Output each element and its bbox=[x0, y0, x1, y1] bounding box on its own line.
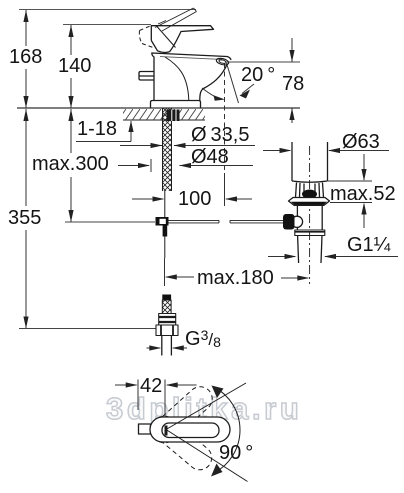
dimension text G1 1/4 bbox=[347, 234, 390, 257]
dimension max.180 bbox=[165, 258, 310, 286]
spout inner curve bbox=[165, 57, 189, 101]
ball knob bbox=[283, 214, 295, 230]
dimension 42 bbox=[115, 380, 197, 428]
dimension text G3/8 bbox=[185, 327, 221, 351]
dimension text O33,5 bbox=[191, 124, 250, 147]
faucet lever bbox=[151, 26, 213, 52]
counter bottom line bbox=[123, 119, 205, 121]
handle outer bbox=[150, 417, 230, 442]
counter top line bbox=[17, 107, 300, 109]
handle pivot tick bbox=[165, 426, 168, 436]
faucet dome bbox=[151, 41, 169, 53]
dimension text 20 deg bbox=[241, 64, 275, 87]
dimension 1-18 bracket bbox=[76, 121, 134, 142]
20 degree annotation bbox=[202, 63, 254, 172]
aerator bbox=[216, 57, 230, 66]
hose top cap bbox=[162, 295, 171, 301]
counter hatch bbox=[123, 109, 205, 120]
dimension 355 bbox=[23, 109, 28, 329]
rod stub below tee bbox=[163, 226, 168, 237]
ball rod socket bbox=[291, 216, 302, 227]
dimension O33,5 arrows bbox=[120, 143, 255, 148]
tailpipe lower bbox=[298, 236, 299, 264]
dimension 168 bbox=[23, 10, 28, 108]
drain tailpipe bbox=[296, 206, 298, 231]
shank end reference line bbox=[65, 221, 155, 223]
drain flange bbox=[289, 198, 330, 206]
dimension text 355 bbox=[7, 207, 42, 230]
dimension G3/8 arrows bbox=[147, 345, 188, 350]
handle inner bbox=[162, 423, 219, 438]
dimension max.300 bbox=[68, 109, 73, 222]
dimension O48 arrows bbox=[118, 159, 253, 172]
drain top cylinder bbox=[291, 142, 293, 181]
dimension text 90 deg bbox=[219, 442, 253, 465]
dimension texts bbox=[0, 0, 1, 1]
dimension O63 bbox=[263, 148, 389, 153]
90 degree wedge lines bbox=[166, 383, 248, 482]
handle stub bbox=[139, 424, 151, 434]
hose nut upper bbox=[159, 314, 176, 326]
dimension text max.180 bbox=[197, 267, 274, 290]
dimension text 42 bbox=[140, 375, 162, 398]
drain ribbed neck bbox=[296, 183, 324, 198]
dimension text 100 bbox=[178, 188, 211, 211]
faucet dome inner diagonal bbox=[157, 27, 176, 48]
dashed swing position upper bbox=[148, 382, 218, 475]
coupling ring bbox=[295, 230, 325, 236]
dimension max.52 bbox=[328, 154, 372, 228]
threaded shank bbox=[163, 108, 172, 191]
drain black seal ring bbox=[302, 190, 317, 199]
dimension text max.52 bbox=[330, 183, 396, 206]
dimension text 1-18 bbox=[77, 118, 117, 141]
dimension text max.300 bbox=[31, 153, 110, 176]
dimension text 140 bbox=[57, 55, 92, 78]
braided section bbox=[162, 300, 171, 314]
hose tube bbox=[161, 336, 163, 356]
faucet lever raised (thin lines) bbox=[155, 8, 197, 31]
reference line top (lever tip level) bbox=[19, 9, 196, 11]
dimension text 168 bbox=[8, 46, 43, 69]
dimension 140 bbox=[68, 25, 73, 108]
faucet side tab bbox=[139, 72, 154, 81]
faucet lever dashed position bbox=[139, 26, 153, 48]
dimension 100 bbox=[132, 173, 252, 206]
drain centerline bbox=[309, 146, 311, 284]
reference line (lever rest level) bbox=[63, 24, 151, 26]
hose nut hex bbox=[156, 325, 178, 336]
dimension text O63 bbox=[342, 131, 380, 154]
dimension text O48 bbox=[191, 146, 229, 169]
tee fitting bbox=[156, 217, 169, 226]
horizontal pop-up rod bbox=[169, 220, 284, 223]
hose end reference line bbox=[19, 328, 156, 330]
faucet body and spout bbox=[152, 53, 231, 101]
dimension 78 bbox=[289, 38, 294, 123]
watermark 3dplitka.ru bbox=[106, 391, 302, 427]
pull rod bbox=[164, 191, 166, 217]
faucet base plinth bbox=[151, 101, 201, 109]
dimension text 78 bbox=[282, 73, 304, 96]
dimension G1 1/4 leader bbox=[268, 254, 398, 259]
mounting hardware under counter bbox=[167, 110, 180, 122]
spout outlet level line bbox=[226, 61, 300, 63]
